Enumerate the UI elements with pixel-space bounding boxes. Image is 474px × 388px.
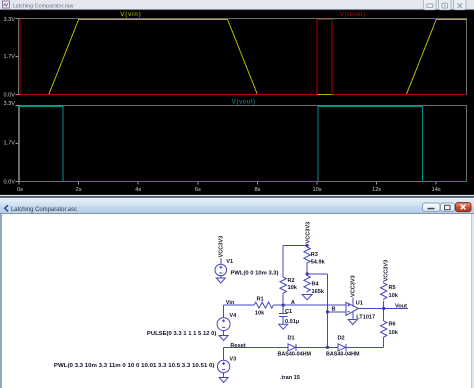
svg-text:R3: R3 bbox=[311, 252, 318, 258]
wire R6 top bbox=[383, 309, 385, 322]
svg-text:R6: R6 bbox=[389, 322, 396, 328]
svg-text:C1: C1 bbox=[285, 309, 292, 315]
ground V3 bbox=[219, 378, 228, 383]
svg-text:V1: V1 bbox=[226, 259, 233, 265]
asc window icon bbox=[5, 205, 8, 211]
wire Vin row bbox=[224, 304, 254, 306]
svg-text:U1: U1 bbox=[356, 300, 363, 306]
resistor R2 bbox=[280, 277, 286, 293]
V(reset) trace bbox=[19, 20, 467, 95]
svg-text:A: A bbox=[291, 300, 295, 306]
wire R3 bottom bbox=[306, 263, 308, 274]
wire V1 gnd stub bbox=[220, 276, 222, 278]
wire opamp vcc stub bbox=[352, 298, 354, 307]
svg-text:Latching Comparator.asc: Latching Comparator.asc bbox=[11, 207, 77, 213]
op-amp U1 bbox=[346, 302, 359, 315]
svg-text:6s: 6s bbox=[195, 187, 201, 193]
junction dots bbox=[282, 244, 386, 349]
wire D2 to R6 bbox=[346, 346, 384, 348]
wire R3R4 junction row bbox=[307, 273, 327, 275]
svg-text:3.3V: 3.3V bbox=[3, 17, 15, 23]
schematic editor window bbox=[0, 196, 474, 388]
node B junction bbox=[326, 310, 329, 313]
ground V4 bbox=[219, 336, 228, 341]
svg-text:R2: R2 bbox=[288, 278, 295, 284]
ground R4 bbox=[302, 295, 312, 300]
svg-text:165k: 165k bbox=[312, 289, 325, 295]
svg-text:10s: 10s bbox=[312, 187, 321, 193]
wire V4 stub bbox=[223, 305, 225, 317]
diode D2 bbox=[338, 344, 346, 351]
ground U1 bbox=[348, 320, 357, 325]
svg-text:10k: 10k bbox=[389, 293, 399, 299]
svg-text:V(vout): V(vout) bbox=[232, 99, 256, 106]
svg-text:VCC3V3: VCC3V3 bbox=[305, 222, 311, 244]
svg-text:4s: 4s bbox=[135, 187, 141, 193]
svg-text:R4: R4 bbox=[312, 282, 320, 288]
svg-text:VCC3V3: VCC3V3 bbox=[219, 236, 225, 258]
svg-text:10k: 10k bbox=[389, 330, 399, 336]
wire B stub to opamp bbox=[328, 311, 347, 313]
svg-text:PWL(0 0 10m 3.3): PWL(0 0 10m 3.3) bbox=[231, 270, 279, 276]
svg-text:Latching Comparator.raw: Latching Comparator.raw bbox=[13, 3, 75, 9]
svg-text:PULSE(0 3.3 1 1 1 5 12 0): PULSE(0 3.3 1 1 1 5 12 0) bbox=[147, 331, 217, 337]
svg-text:0.01µ: 0.01µ bbox=[285, 319, 299, 325]
node A junction bbox=[282, 304, 285, 307]
svg-text:2s: 2s bbox=[76, 187, 82, 193]
title bar raw window bbox=[0, 0, 474, 9]
resistor R1 bbox=[254, 302, 274, 308]
wire R1 to opamp bbox=[274, 304, 347, 306]
V(vin) trace bbox=[19, 20, 467, 95]
y ticks pane1 bbox=[16, 19, 19, 182]
node R3R4 junction bbox=[306, 272, 309, 275]
wire B column bbox=[327, 274, 329, 348]
wire reset row bbox=[224, 346, 288, 348]
voltage source V3 bbox=[217, 360, 229, 372]
svg-text:10k: 10k bbox=[288, 285, 298, 291]
svg-text:V(reset): V(reset) bbox=[340, 11, 365, 18]
x ticks bbox=[19, 182, 436, 185]
svg-text:10k: 10k bbox=[255, 311, 265, 317]
svg-text:D1: D1 bbox=[288, 335, 295, 341]
resistor R6 bbox=[381, 321, 387, 337]
asc window buttons bbox=[423, 203, 472, 212]
wire V3 gnd stub bbox=[223, 373, 225, 378]
svg-text:0.0V: 0.0V bbox=[3, 92, 15, 98]
wire R2 column top bbox=[282, 246, 284, 278]
svg-text:Vin: Vin bbox=[226, 300, 235, 306]
svg-text:VCC3V3: VCC3V3 bbox=[383, 260, 389, 282]
wire VCC rail R2-R3 bbox=[283, 245, 307, 247]
node VCC R3 top junction bbox=[306, 244, 309, 247]
wire V1 top stub bbox=[220, 258, 222, 264]
black plot client bbox=[0, 10, 474, 196]
svg-text:R1: R1 bbox=[257, 297, 264, 303]
resistor R3 bbox=[304, 247, 310, 263]
svg-text:R5: R5 bbox=[389, 285, 396, 291]
svg-text:1.7V: 1.7V bbox=[3, 54, 15, 60]
svg-text:Vout: Vout bbox=[395, 304, 407, 310]
node diode row junction bbox=[326, 346, 329, 349]
svg-text:V(vin): V(vin) bbox=[120, 11, 141, 18]
svg-text:Reset: Reset bbox=[230, 343, 245, 349]
wire D1-D2 bbox=[296, 346, 338, 348]
svg-text:PWL(0 3.3 10m 3.3 11m 0 10 0 1: PWL(0 3.3 10m 3.3 11m 0 10 0 10.01 3.3 1… bbox=[54, 363, 215, 369]
svg-text:BAS40-04HM: BAS40-04HM bbox=[278, 352, 312, 358]
diode D1 bbox=[288, 344, 296, 351]
window frame bbox=[0, 196, 474, 388]
svg-text:.tran 15: .tran 15 bbox=[280, 375, 300, 381]
svg-text:D2: D2 bbox=[338, 335, 345, 341]
wire V3 stub bbox=[223, 347, 225, 360]
waveform viewer window bbox=[0, 0, 474, 196]
resistor R5 bbox=[381, 282, 387, 301]
svg-text:12s: 12s bbox=[372, 187, 381, 193]
resistor R4 bbox=[304, 274, 310, 293]
wire opamp gnd stub bbox=[352, 311, 354, 319]
voltage source V4 bbox=[217, 318, 230, 331]
svg-text:3.3V: 3.3V bbox=[3, 101, 15, 107]
svg-text:BAS40-04HM: BAS40-04HM bbox=[326, 352, 360, 358]
svg-text:VCC3V3: VCC3V3 bbox=[351, 275, 357, 297]
wire R2 bottom bbox=[282, 293, 284, 305]
svg-text:54.9k: 54.9k bbox=[311, 260, 326, 266]
white schematic client bbox=[0, 213, 474, 388]
ground C1 bbox=[279, 324, 288, 329]
wire R5 bottom bbox=[383, 301, 385, 309]
schematic drawing : global y minus 196 bbox=[215, 246, 408, 383]
svg-text:0.0V: 0.0V bbox=[3, 180, 15, 186]
capacitor C1 bbox=[282, 305, 284, 314]
svg-text:V3: V3 bbox=[229, 357, 236, 363]
raw window buttons bbox=[424, 0, 467, 10]
svg-text:0s: 0s bbox=[17, 187, 23, 193]
svg-text:B: B bbox=[332, 307, 336, 313]
svg-text:V4: V4 bbox=[229, 313, 237, 319]
pane 2 border bbox=[19, 106, 467, 182]
V(vout) trace bbox=[20, 107, 467, 182]
raw window icon bbox=[3, 1, 10, 8]
wire V4 gnd stub bbox=[223, 331, 225, 336]
svg-text:14s: 14s bbox=[432, 187, 441, 193]
wire R3 top stub bbox=[306, 246, 308, 248]
ground V1 bbox=[216, 278, 225, 283]
node Vout junction bbox=[382, 307, 385, 310]
svg-text:1.7V: 1.7V bbox=[3, 140, 15, 146]
svg-text:8s: 8s bbox=[254, 187, 260, 193]
wire R6 bottom to diode row bbox=[383, 337, 385, 347]
svg-text:LT1017: LT1017 bbox=[356, 314, 375, 320]
wire output row bbox=[359, 308, 409, 310]
axis labels bbox=[3, 17, 15, 186]
voltage source V1 bbox=[215, 264, 227, 276]
pane 1 border bbox=[19, 19, 467, 95]
